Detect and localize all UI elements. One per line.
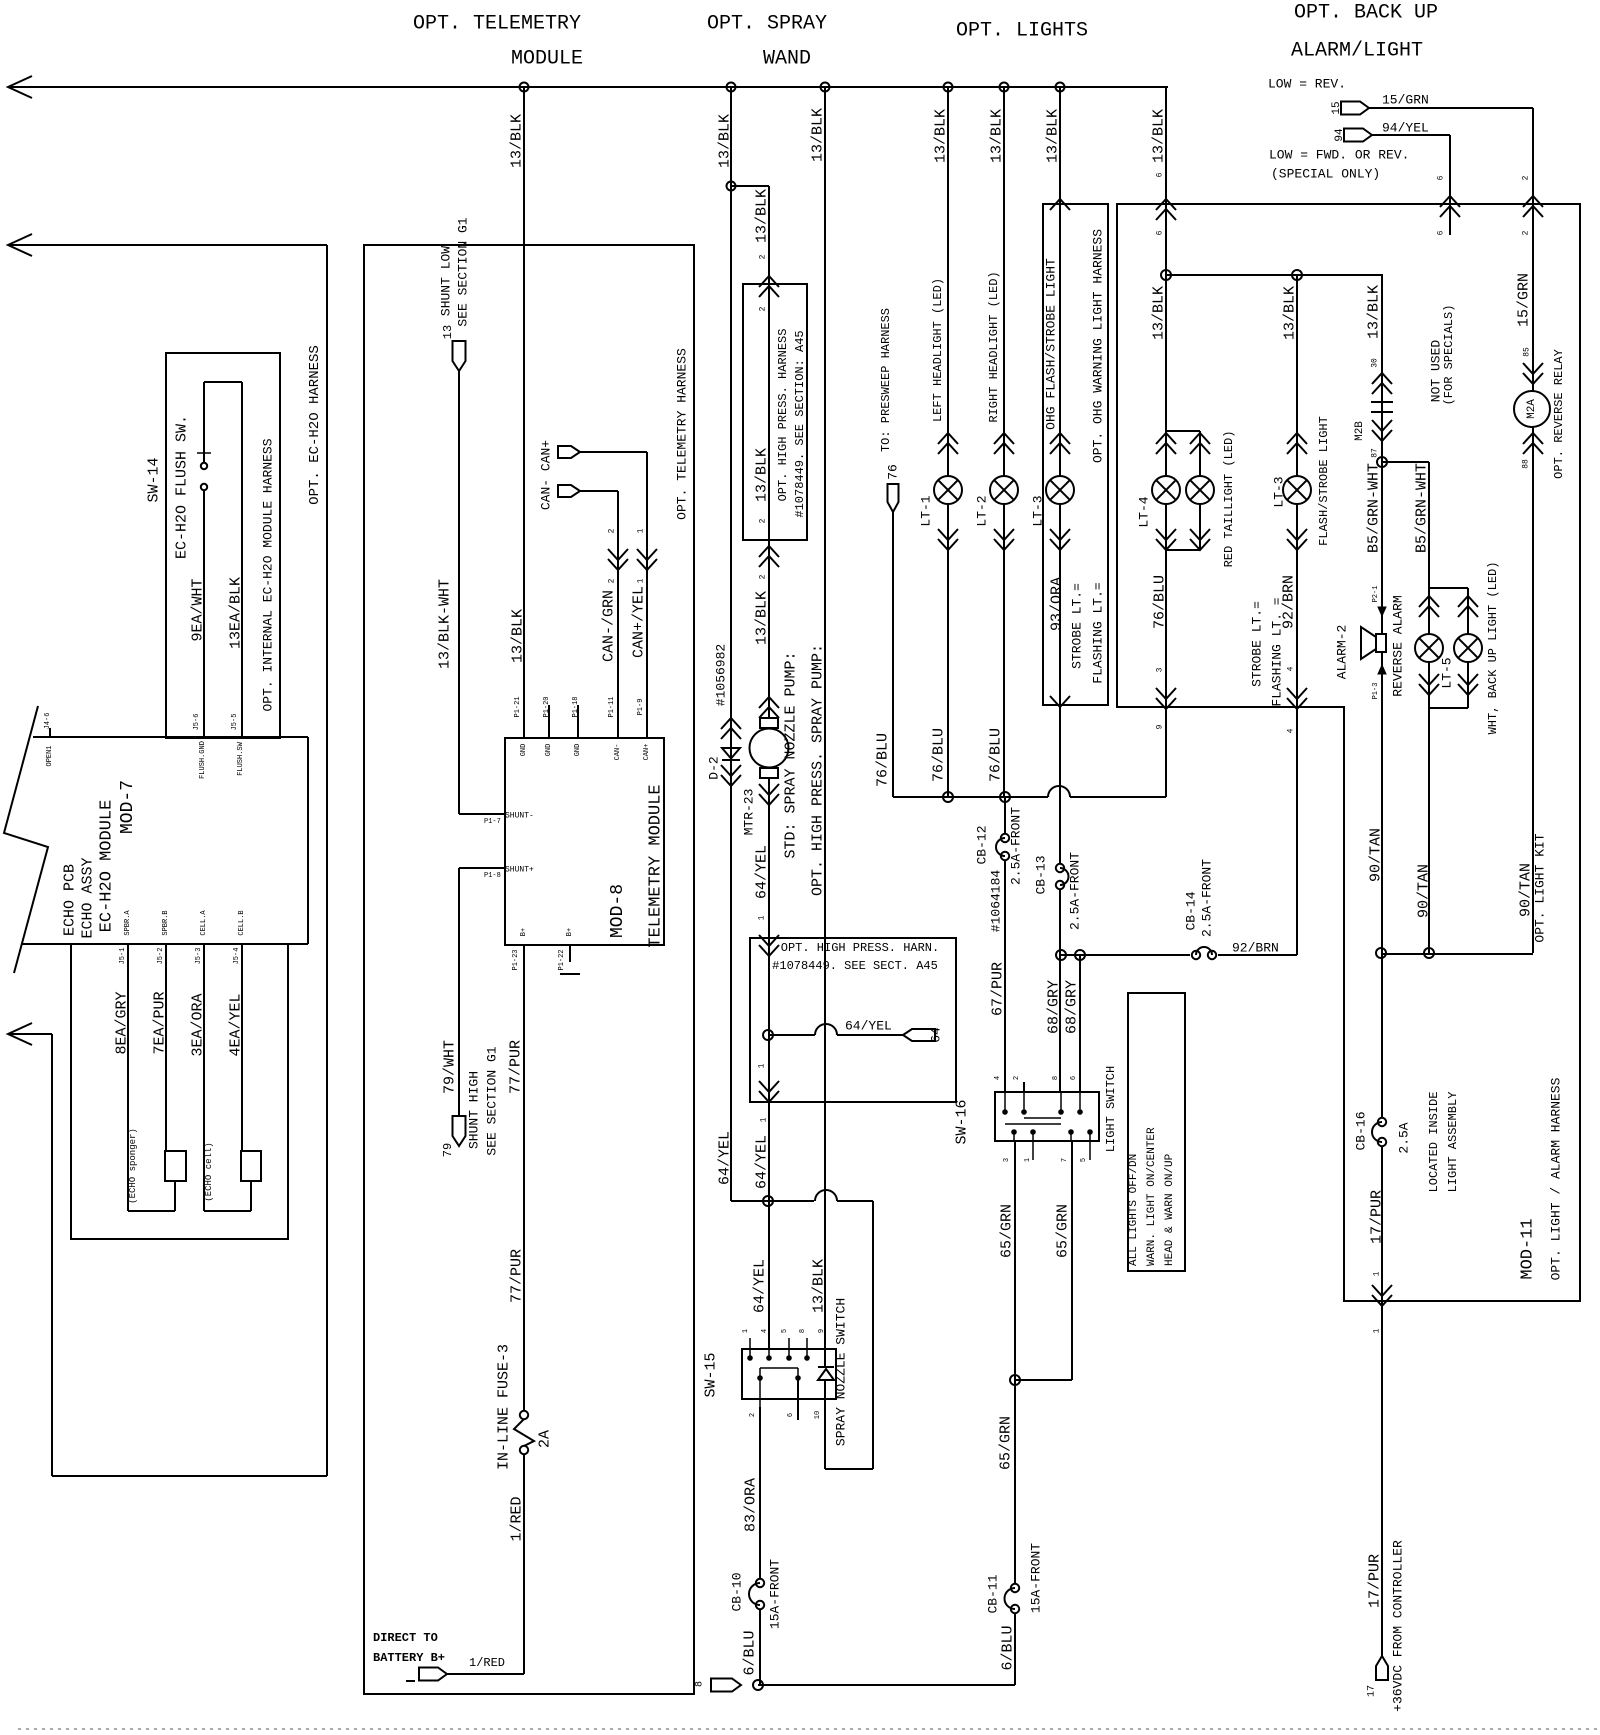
svg-text:P1-18: P1-18	[572, 696, 580, 717]
svg-text:B+: B+	[566, 928, 574, 936]
svg-text:STROBE LT.=: STROBE LT.=	[1250, 601, 1265, 687]
svg-text:OPT. LIGHTS: OPT. LIGHTS	[956, 20, 1088, 43]
svg-text:7: 7	[1061, 1158, 1069, 1162]
svg-text:WAND: WAND	[763, 48, 811, 71]
svg-text:OPT. HIGH PRESS. SPRAY PUMP:: OPT. HIGH PRESS. SPRAY PUMP:	[810, 644, 827, 896]
svg-text:15/GRN: 15/GRN	[1382, 93, 1429, 108]
svg-text:CB-12: CB-12	[975, 825, 990, 864]
svg-text:TELEMETRY MODULE: TELEMETRY MODULE	[647, 784, 666, 947]
svg-text:CAN+/YEL: CAN+/YEL	[631, 586, 648, 658]
svg-text:87: 87	[1371, 448, 1380, 458]
svg-text:1/RED: 1/RED	[469, 1656, 505, 1670]
svg-text:IN-LINE FUSE-3: IN-LINE FUSE-3	[496, 1344, 513, 1470]
svg-text:FLUSH.GND: FLUSH.GND	[199, 741, 207, 779]
svg-text:P2-1: P2-1	[1372, 586, 1380, 603]
svg-text:LEFT HEADLIGHT (LED): LEFT HEADLIGHT (LED)	[931, 278, 945, 422]
svg-text:2: 2	[759, 574, 768, 579]
svg-text:OPT. INTERNAL EC-H2O MODULE HA: OPT. INTERNAL EC-H2O MODULE HARNESS	[261, 438, 276, 711]
svg-text:64: 64	[929, 1027, 944, 1043]
svg-text:1: 1	[758, 1063, 767, 1068]
svg-text:13/BLK: 13/BLK	[509, 114, 526, 168]
svg-text:13/BLK: 13/BLK	[810, 108, 827, 162]
svg-text:30: 30	[1371, 358, 1380, 368]
svg-text:P1-9: P1-9	[637, 699, 645, 716]
svg-text:STROBE LT.=: STROBE LT.=	[1070, 583, 1085, 669]
svg-text:TO: PRESWEEP HARNESS: TO: PRESWEEP HARNESS	[879, 308, 893, 452]
svg-text:OPT. HIGH PRESS. HARN.: OPT. HIGH PRESS. HARN.	[781, 941, 939, 955]
svg-text:P1-22: P1-22	[558, 949, 566, 970]
svg-text:76/BLU: 76/BLU	[988, 728, 1005, 782]
svg-text:2.5A-FRONT: 2.5A-FRONT	[1068, 852, 1083, 930]
svg-text:MODULE: MODULE	[511, 48, 583, 71]
svg-text:4: 4	[1287, 728, 1296, 733]
svg-text:OPT. TELEMETRY HARNESS: OPT. TELEMETRY HARNESS	[675, 348, 690, 520]
svg-text:SHUNT HIGH: SHUNT HIGH	[467, 1071, 482, 1149]
svg-text:SW-16: SW-16	[954, 1099, 971, 1144]
svg-text:CB-11: CB-11	[986, 1574, 1001, 1613]
svg-text:OPT. LIGHT KIT: OPT. LIGHT KIT	[1533, 833, 1548, 942]
svg-text:OHG FLASH/STROBE LIGHT: OHG FLASH/STROBE LIGHT	[1044, 258, 1059, 430]
svg-text:DIRECT TO: DIRECT TO	[373, 1631, 438, 1645]
svg-text:P1-23: P1-23	[512, 949, 520, 970]
svg-text:2: 2	[1522, 175, 1531, 180]
svg-text:9EA/WHT: 9EA/WHT	[190, 578, 207, 641]
svg-text:LIGHT SWITCH: LIGHT SWITCH	[1104, 1066, 1118, 1152]
svg-text:1: 1	[760, 1117, 769, 1122]
svg-text:1: 1	[758, 915, 767, 920]
svg-text:GND: GND	[545, 744, 553, 757]
svg-text:STD: SPRAY NOZZLE PUMP:: STD: SPRAY NOZZLE PUMP:	[783, 651, 800, 858]
svg-text:WARN. LIGHT ON/CENTER: WARN. LIGHT ON/CENTER	[1146, 1127, 1158, 1266]
svg-text:OPT. HIGH PRESS. HARNESS: OPT. HIGH PRESS. HARNESS	[776, 329, 790, 502]
svg-text:ALARM-2: ALARM-2	[1335, 625, 1350, 680]
svg-text:CB-10: CB-10	[730, 1572, 745, 1611]
svg-text:2.5A-FRONT: 2.5A-FRONT	[1200, 859, 1215, 937]
svg-text:4EA/YEL: 4EA/YEL	[228, 993, 245, 1056]
svg-text:RIGHT HEADLIGHT (LED): RIGHT HEADLIGHT (LED)	[987, 271, 1001, 422]
svg-text:8: 8	[799, 1329, 807, 1333]
svg-text:LOW = FWD. OR REV.: LOW = FWD. OR REV.	[1269, 148, 1409, 163]
svg-text:9: 9	[1156, 724, 1165, 729]
svg-text:15/GRN: 15/GRN	[1516, 273, 1533, 327]
svg-text:RED TAILLIGHT (LED): RED TAILLIGHT (LED)	[1222, 431, 1236, 568]
svg-text:8: 8	[1052, 1076, 1060, 1080]
svg-text:1: 1	[637, 578, 646, 583]
svg-text:OPEN1: OPEN1	[46, 745, 54, 766]
svg-text:FLUSH.SW: FLUSH.SW	[237, 741, 245, 775]
svg-text:LOW = REV.: LOW = REV.	[1268, 77, 1346, 92]
svg-text:CAN- CAN+: CAN- CAN+	[539, 440, 554, 510]
svg-text:76: 76	[886, 464, 901, 480]
svg-text:MOD-7: MOD-7	[118, 780, 138, 834]
svg-text:P1-21: P1-21	[514, 696, 522, 717]
svg-text:7EA/PUR: 7EA/PUR	[152, 991, 169, 1054]
svg-text:2: 2	[608, 578, 617, 583]
svg-text:LT-2: LT-2	[975, 495, 990, 526]
svg-text:2: 2	[759, 306, 768, 311]
svg-text:13/BLK: 13/BLK	[811, 1259, 828, 1313]
svg-text:FLASH/STROBE LIGHT: FLASH/STROBE LIGHT	[1317, 416, 1331, 546]
svg-text:13/BLK: 13/BLK	[717, 114, 734, 168]
svg-text:CB-13: CB-13	[1034, 855, 1049, 894]
svg-text:6: 6	[1070, 1076, 1078, 1080]
svg-text:WHT, BACK UP LIGHT (LED): WHT, BACK UP LIGHT (LED)	[1486, 562, 1500, 735]
svg-text:SEE SECTION G1: SEE SECTION G1	[456, 217, 471, 326]
svg-text:SHUNT-: SHUNT-	[505, 812, 534, 821]
svg-text:1/RED: 1/RED	[509, 1496, 526, 1541]
svg-text:OPT. TELEMETRY: OPT. TELEMETRY	[413, 13, 581, 36]
svg-text:CELL.B: CELL.B	[238, 910, 246, 935]
svg-text:8: 8	[695, 1681, 706, 1687]
svg-text:#1078449. SEE SECT. A45: #1078449. SEE SECT. A45	[772, 959, 938, 973]
svg-text:5: 5	[1080, 1158, 1088, 1162]
svg-text:P1-7: P1-7	[484, 818, 501, 826]
svg-text:ECHO ASSY: ECHO ASSY	[80, 857, 97, 938]
svg-text:4: 4	[994, 1076, 1002, 1080]
svg-text:ALL LIGHTS OFF/DN: ALL LIGHTS OFF/DN	[1128, 1154, 1140, 1266]
svg-text:4: 4	[1287, 666, 1296, 671]
svg-text:17/PUR: 17/PUR	[1369, 1190, 1386, 1244]
svg-text:13/BLK: 13/BLK	[1151, 109, 1168, 163]
svg-text:OPT. LIGHT / ALARM HARNESS: OPT. LIGHT / ALARM HARNESS	[1549, 1077, 1564, 1280]
svg-text:CAN-: CAN-	[614, 744, 622, 761]
svg-text:4: 4	[761, 1329, 769, 1333]
svg-text:83/ORA: 83/ORA	[743, 1478, 760, 1532]
svg-text:64/YEL: 64/YEL	[754, 1135, 771, 1189]
svg-text:13/BLK: 13/BLK	[754, 448, 771, 502]
svg-text:85: 85	[1523, 347, 1532, 357]
svg-text:93/ORA: 93/ORA	[1049, 577, 1066, 631]
svg-text:2: 2	[749, 1413, 757, 1417]
svg-text:64/YEL: 64/YEL	[754, 845, 771, 899]
svg-text:15A-FRONT: 15A-FRONT	[768, 1559, 783, 1629]
svg-text:FLASHING LT. =: FLASHING LT. =	[1270, 597, 1285, 706]
svg-text:10: 10	[814, 1411, 822, 1419]
svg-text:OPT. BACK UP: OPT. BACK UP	[1294, 2, 1438, 25]
svg-text:J5-1: J5-1	[119, 948, 127, 965]
svg-text:3: 3	[1156, 667, 1165, 672]
svg-text:13/BLK: 13/BLK	[1282, 286, 1299, 340]
svg-text:90/TAN: 90/TAN	[1368, 828, 1385, 882]
svg-text:#1064184: #1064184	[989, 870, 1004, 933]
svg-text:P1-11: P1-11	[608, 696, 616, 717]
svg-text:J5-4: J5-4	[233, 948, 241, 965]
svg-text:MOD-11: MOD-11	[1519, 1218, 1538, 1279]
svg-text:HEAD & WARN ON/UP: HEAD & WARN ON/UP	[1164, 1153, 1176, 1266]
svg-text:65/GRN: 65/GRN	[998, 1416, 1015, 1470]
svg-text:M2B: M2B	[1354, 421, 1366, 441]
svg-text:1: 1	[637, 528, 646, 533]
svg-text:SHUNT LOW: SHUNT LOW	[439, 246, 454, 316]
svg-text:15A-FRONT: 15A-FRONT	[1029, 1543, 1044, 1613]
svg-text:2: 2	[1013, 1076, 1021, 1080]
svg-text:#1078449. SEE SECTION: A45: #1078449. SEE SECTION: A45	[793, 330, 807, 517]
svg-text:LT-4: LT-4	[1137, 496, 1152, 527]
svg-text:13EA/BLK: 13EA/BLK	[228, 577, 245, 649]
svg-text:13/BLK: 13/BLK	[510, 609, 527, 663]
svg-text:+36VDC FROM CONTROLLER: +36VDC FROM CONTROLLER	[1391, 1540, 1406, 1712]
svg-text:#1056982: #1056982	[714, 644, 729, 706]
svg-text:B5/GRN-WHT: B5/GRN-WHT	[1414, 463, 1431, 553]
svg-text:6: 6	[1437, 175, 1446, 180]
svg-text:64/YEL: 64/YEL	[717, 1131, 734, 1185]
svg-text:13/BLK: 13/BLK	[1366, 285, 1383, 339]
svg-text:2.5A: 2.5A	[1397, 1122, 1412, 1153]
svg-text:92/BRN: 92/BRN	[1232, 941, 1279, 956]
svg-text:FLASHING LT.=: FLASHING LT.=	[1091, 582, 1106, 684]
svg-text:J5-6: J5-6	[193, 714, 201, 731]
svg-text:CAN-/GRN: CAN-/GRN	[601, 590, 618, 662]
svg-text:94/YEL: 94/YEL	[1382, 121, 1429, 136]
svg-text:LT-5: LT-5	[1440, 657, 1455, 688]
svg-text:76/BLU: 76/BLU	[875, 733, 892, 787]
svg-text:64/YEL: 64/YEL	[752, 1259, 769, 1313]
svg-text:SEE SECTION G1: SEE SECTION G1	[485, 1046, 500, 1155]
svg-text:LT-3: LT-3	[1031, 495, 1046, 526]
svg-text:SHUNT+: SHUNT+	[505, 866, 534, 875]
svg-text:1: 1	[1024, 1158, 1032, 1162]
svg-text:J5-5: J5-5	[231, 714, 239, 731]
svg-text:(SPECIAL ONLY): (SPECIAL ONLY)	[1271, 167, 1380, 182]
svg-text:5: 5	[781, 1329, 789, 1333]
svg-text:77/PUR: 77/PUR	[509, 1249, 526, 1303]
svg-text:ALARM/LIGHT: ALARM/LIGHT	[1291, 40, 1423, 63]
svg-text:2: 2	[759, 254, 768, 259]
svg-text:P1-8: P1-8	[484, 872, 501, 880]
svg-text:94: 94	[1334, 128, 1346, 142]
svg-text:SPBR.A: SPBR.A	[124, 910, 132, 936]
svg-text:13: 13	[441, 325, 455, 339]
svg-text:GND: GND	[574, 744, 582, 757]
svg-text:CB-16: CB-16	[1354, 1111, 1369, 1150]
svg-text:17: 17	[1367, 1685, 1378, 1697]
svg-text:13/BLK: 13/BLK	[754, 591, 771, 645]
svg-text:3EA/ORA: 3EA/ORA	[190, 993, 207, 1056]
svg-text:D-2: D-2	[707, 756, 722, 779]
svg-text:68/GRY: 68/GRY	[1064, 980, 1081, 1034]
svg-text:1: 1	[742, 1329, 750, 1333]
svg-text:LT-1: LT-1	[919, 495, 934, 526]
svg-text:CB-14: CB-14	[1184, 891, 1199, 930]
svg-text:9: 9	[818, 1329, 826, 1333]
svg-text:OPT. SPRAY: OPT. SPRAY	[707, 13, 827, 36]
svg-text:6: 6	[1156, 230, 1165, 235]
svg-text:2: 2	[759, 518, 768, 523]
svg-text:SW-14: SW-14	[146, 457, 163, 502]
svg-text:EC-H2O FLUSH SW.: EC-H2O FLUSH SW.	[174, 415, 191, 559]
svg-text:13/BLK: 13/BLK	[754, 189, 771, 243]
svg-text:GND: GND	[520, 744, 528, 757]
svg-text:LOCATED INSIDE: LOCATED INSIDE	[1427, 1092, 1441, 1193]
svg-text:67/PUR: 67/PUR	[990, 962, 1007, 1016]
svg-text:79/WHT: 79/WHT	[442, 1040, 459, 1094]
svg-text:8EA/GRY: 8EA/GRY	[114, 991, 131, 1054]
svg-text:13/BLK: 13/BLK	[1045, 109, 1062, 163]
svg-text:B+: B+	[520, 928, 528, 936]
svg-text:SW-15: SW-15	[703, 1352, 720, 1397]
svg-text:15: 15	[1331, 101, 1343, 114]
svg-text:6/BLU: 6/BLU	[742, 1630, 759, 1675]
svg-text:ECHO PCB: ECHO PCB	[62, 864, 79, 936]
svg-text:P1-20: P1-20	[543, 696, 551, 717]
svg-text:OPT. OHG WARNING LIGHT HARNESS: OPT. OHG WARNING LIGHT HARNESS	[1091, 229, 1106, 463]
svg-text:B5/GRN-WHT: B5/GRN-WHT	[1366, 463, 1383, 553]
svg-text:65/GRN: 65/GRN	[999, 1204, 1016, 1258]
svg-text:LT-3: LT-3	[1272, 476, 1287, 507]
svg-text:79: 79	[441, 1143, 455, 1157]
svg-text:EC-H2O MODULE: EC-H2O MODULE	[98, 800, 117, 933]
svg-text:J4-6: J4-6	[44, 713, 52, 730]
svg-text:SPRAY NOZZLE SWITCH: SPRAY NOZZLE SWITCH	[834, 1298, 849, 1446]
svg-text:6: 6	[1156, 172, 1165, 177]
svg-text:88: 88	[1522, 459, 1531, 469]
svg-text:13/BLK: 13/BLK	[989, 109, 1006, 163]
svg-text:REVERSE ALARM: REVERSE ALARM	[1391, 595, 1406, 696]
svg-text:13/BLK: 13/BLK	[933, 109, 950, 163]
svg-text:3: 3	[1003, 1158, 1011, 1162]
svg-text:(FOR SPECIALS): (FOR SPECIALS)	[1442, 305, 1456, 406]
svg-text:J5-2: J5-2	[157, 948, 165, 965]
svg-text:6: 6	[1437, 230, 1446, 235]
svg-text:1: 1	[1373, 1328, 1382, 1333]
svg-text:13/BLK: 13/BLK	[1151, 286, 1168, 340]
svg-text:BATTERY B+: BATTERY B+	[373, 1651, 445, 1665]
svg-text:OPT. EC-H2O HARNESS: OPT. EC-H2O HARNESS	[307, 345, 323, 505]
svg-text:P1-3: P1-3	[1372, 683, 1380, 700]
svg-text:76/BLU: 76/BLU	[1152, 575, 1169, 629]
svg-text:13/BLK-WHT: 13/BLK-WHT	[437, 579, 454, 669]
svg-text:(ECHO sponger): (ECHO sponger)	[128, 1128, 138, 1204]
svg-text:6: 6	[787, 1413, 795, 1417]
svg-text:76/BLU: 76/BLU	[931, 728, 948, 782]
svg-text:1: 1	[1373, 1271, 1382, 1276]
svg-text:77/PUR: 77/PUR	[508, 1040, 525, 1094]
svg-text:65/GRN: 65/GRN	[1055, 1204, 1072, 1258]
svg-text:17/PUR: 17/PUR	[1367, 1554, 1384, 1608]
svg-text:2: 2	[1522, 230, 1531, 235]
svg-text:OPT. REVERSE RELAY: OPT. REVERSE RELAY	[1552, 349, 1566, 479]
svg-text:68/GRY: 68/GRY	[1046, 980, 1063, 1034]
svg-text:SPBR.B: SPBR.B	[162, 910, 170, 935]
svg-text:M2A: M2A	[1526, 399, 1538, 419]
svg-text:MOD-8: MOD-8	[608, 884, 628, 938]
svg-text:CELL.A: CELL.A	[200, 910, 208, 936]
svg-text:J5-3: J5-3	[195, 948, 203, 965]
svg-text:2A: 2A	[537, 1430, 554, 1448]
svg-text:6/BLU: 6/BLU	[1000, 1625, 1017, 1670]
svg-text:2.5A-FRONT: 2.5A-FRONT	[1009, 807, 1024, 885]
svg-text:(ECHO cell): (ECHO cell)	[204, 1142, 214, 1201]
svg-text:MTR-23: MTR-23	[742, 789, 757, 836]
svg-text:64/YEL: 64/YEL	[845, 1019, 892, 1034]
svg-text:LIGHT ASSEMBLY: LIGHT ASSEMBLY	[1446, 1092, 1460, 1193]
svg-text:2: 2	[608, 528, 617, 533]
svg-text:90/TAN: 90/TAN	[1416, 864, 1433, 918]
svg-text:CAN+: CAN+	[643, 744, 651, 761]
